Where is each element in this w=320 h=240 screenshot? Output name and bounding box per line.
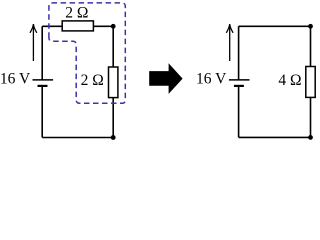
dashed selection outline around R1 and R2 bbox=[49, 3, 125, 103]
resistor R2 2 Ω (vertical box) bbox=[109, 67, 118, 98]
battery V1 16 V long plate bbox=[33, 79, 54, 81]
wire left upper (left circuit) bbox=[41, 26, 43, 80]
wire right branch (right circuit) bbox=[310, 26, 312, 137]
current arrow (right circuit) bbox=[226, 24, 233, 61]
wire left lower (left circuit) bbox=[41, 86, 43, 138]
battery V1 16 V short plate bbox=[38, 85, 48, 87]
node top-right junction (left circuit) bbox=[111, 24, 116, 29]
wire top (right circuit) bbox=[239, 25, 311, 27]
resistor R1 2 Ω (horizontal box) bbox=[62, 21, 93, 31]
wire bottom (left circuit) bbox=[42, 137, 113, 139]
node bottom-right junction (left circuit) bbox=[111, 135, 116, 140]
equivalence arrow (big black arrow) bbox=[149, 63, 182, 94]
svg-text:2 Ω: 2 Ω bbox=[81, 72, 104, 89]
svg-text:16 V: 16 V bbox=[0, 70, 31, 87]
current arrow (left circuit) bbox=[30, 24, 37, 61]
wire right branch (left circuit) bbox=[112, 26, 114, 137]
resistor R3 4 Ω (vertical box) bbox=[306, 67, 315, 98]
svg-text:16 V: 16 V bbox=[196, 70, 227, 87]
battery V2 16 V short plate bbox=[234, 85, 244, 87]
wire left lower (right circuit) bbox=[238, 86, 240, 137]
wire left upper (right circuit) bbox=[238, 26, 240, 80]
node bottom-right junction (right circuit) bbox=[308, 135, 313, 140]
battery V2 16 V long plate bbox=[229, 79, 250, 81]
wire bottom (right circuit) bbox=[239, 136, 311, 138]
svg-text:4 Ω: 4 Ω bbox=[278, 72, 301, 89]
node top-right junction (right circuit) bbox=[308, 24, 313, 29]
wire top (left circuit) bbox=[42, 25, 113, 27]
svg-text:2 Ω: 2 Ω bbox=[65, 5, 88, 22]
